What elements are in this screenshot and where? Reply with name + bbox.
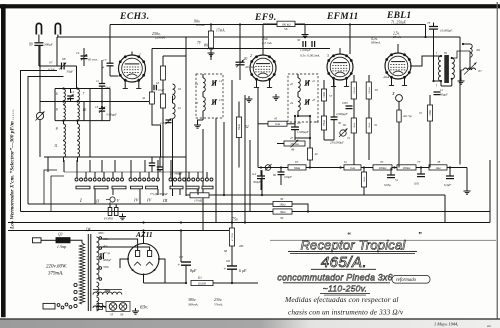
svg-text:17mA.: 17mA. (216, 29, 225, 33)
svg-text:14: 14 (195, 82, 199, 86)
svg-text:EF9.: EF9. (254, 13, 277, 23)
svg-text:1: 1 (139, 53, 141, 57)
switch Alt (397, 110, 401, 122)
svg-text:25mA.: 25mA. (393, 35, 401, 39)
capacitor C29 group (149, 162, 155, 164)
resistor R70 200k (373, 165, 392, 170)
winding 39v (93, 292, 122, 294)
resistor R59 500k (368, 75, 370, 82)
title reformado box (392, 276, 430, 284)
svg-text:2: 2 (250, 54, 252, 58)
svg-text:I: I (79, 199, 82, 204)
tube U1 ECH3 (119, 55, 146, 82)
switch S1 contacts row B (129, 178, 132, 181)
svg-text:45: 45 (274, 117, 278, 121)
svg-text:13: 13 (195, 101, 199, 105)
wire U1 grid (110, 75, 119, 77)
svg-text:10: 10 (178, 87, 182, 91)
resistor R39 1M (21, 211, 274, 213)
svg-text:500kΩ: 500kΩ (368, 87, 371, 94)
aerial input jack J1 (36, 112, 43, 119)
svg-text:Los Wermorrador X’cm. “Selectr: Los Wermorrador X’cm. “Selectror”—300 pF… (10, 109, 16, 230)
pickup jack G4 (265, 165, 271, 171)
svg-text:57mA.: 57mA. (214, 303, 223, 307)
svg-text:3: 3 (327, 54, 329, 58)
svg-text:75kΩ: 75kΩ (323, 120, 326, 126)
svg-text:51: 51 (395, 178, 399, 182)
coil L12 osc (173, 103, 176, 119)
svg-text:III: III (162, 198, 168, 203)
ground R56 (304, 24, 306, 32)
resistor R45 1k (258, 123, 268, 125)
svg-text:Medidas efectuadas con respect: Medidas efectuadas con respector al (284, 295, 399, 304)
capacitor CG8 6uF (231, 246, 233, 266)
wire right verticals (489, 160, 491, 223)
svg-text:380ν.: 380ν. (188, 298, 196, 302)
wire fuse out (70, 240, 82, 243)
svg-text:60: 60 (343, 123, 347, 127)
svg-text:379mA.: 379mA. (48, 272, 63, 277)
svg-text:36: 36 (338, 121, 342, 125)
coil L11 (64, 141, 66, 157)
svg-text:+: + (224, 268, 227, 273)
svg-text:Receptor Tropical: Receptor Tropical (300, 238, 406, 253)
capacitor C12 padder (67, 95, 74, 97)
resistor R60 50k (351, 118, 356, 133)
svg-text:67: 67 (295, 160, 299, 164)
wire U2 legs (257, 88, 259, 168)
wire AVC bus 1 (210, 194, 445, 196)
svg-text:300μF: 300μF (253, 180, 261, 184)
svg-text:7: 7 (83, 92, 85, 96)
wire coil links (63, 103, 65, 106)
wire tuning h3 (55, 120, 110, 122)
transformer T1 primary (79, 243, 84, 304)
transformer T1 secondary LT (97, 282, 99, 296)
transformer T1 core (87, 234, 89, 311)
svg-text:EFM11: EFM11 (326, 12, 359, 22)
svg-text:44: 44 (290, 101, 294, 105)
svg-text:3-30μμF: 3-30μμF (106, 113, 117, 117)
resistor R31 10k (190, 193, 209, 198)
ground U2 k (248, 96, 250, 99)
wire B+ line (213, 282, 258, 284)
svg-text:G8: G8 (226, 259, 230, 263)
wire AZ11 cathode out (143, 275, 145, 284)
resistor R-50k v (363, 168, 365, 173)
svg-text:500kΩ: 500kΩ (353, 87, 356, 94)
coil L7 (78, 89, 80, 104)
svg-text:12: 12 (71, 90, 75, 94)
wire tuning h1 (55, 88, 110, 90)
svg-text:11: 11 (54, 144, 58, 148)
IF transformer IFT2 (dashed) (288, 74, 318, 122)
resistor R77 200k (397, 165, 416, 170)
capacitor C-6.3 (449, 168, 451, 177)
svg-text:1MΩ: 1MΩ (323, 92, 326, 98)
wire spk top (463, 43, 470, 45)
svg-text:98: 98 (62, 57, 66, 61)
wire osc verticals (172, 96, 174, 103)
capacitor C99 300pF (38, 35, 40, 43)
capacitor C36 2000pF (333, 80, 335, 117)
svg-text:49: 49 (315, 152, 319, 156)
svg-text:330ν: 330ν (103, 265, 110, 269)
svg-text:690mA.: 690mA. (371, 41, 381, 45)
svg-text:Q3: Q3 (58, 233, 63, 237)
capacitor IFT1b (212, 99, 214, 105)
capacitor IFT2b (305, 99, 307, 105)
border right line (497, 2, 498, 322)
svg-text:Alt. 5μ: Alt. 5μ (402, 114, 412, 118)
wire AZ11 top (143, 231, 145, 244)
svg-text:50kΩ: 50kΩ (353, 123, 356, 129)
ground lamps (135, 308, 137, 311)
title underline 2 (311, 268, 376, 270)
resistor R72 1M (429, 95, 431, 105)
svg-text:9: 9 (56, 108, 58, 112)
resistor R62 1k (344, 165, 361, 170)
svg-text:32ν: 32ν (105, 289, 111, 293)
coil L8b (78, 124, 80, 140)
wire left feed 2 (28, 77, 64, 205)
svg-text:47: 47 (290, 136, 294, 140)
tube U2 EF9 (250, 55, 276, 81)
coil L6 (64, 89, 66, 104)
switch S1 contacts row C (169, 178, 172, 181)
svg-text:67mA.: 67mA. (196, 23, 205, 27)
svg-text:20: 20 (244, 57, 248, 61)
svg-text:77: 77 (417, 160, 421, 164)
svg-text:chasis con un instrumento de 3: chasis con un instrumento de 333 Ω/ν (288, 308, 404, 317)
capacitor C18 (153, 85, 155, 90)
wire det links (295, 137, 310, 139)
svg-text:56: 56 (284, 27, 288, 31)
wire to coils (76, 66, 78, 89)
wire EBL1 top (397, 44, 399, 53)
svg-text:19: 19 (76, 51, 80, 55)
svg-text:1kΩ: 1kΩ (350, 167, 355, 170)
wire fono (109, 203, 111, 208)
svg-text:8: 8 (56, 127, 58, 131)
svg-text:4mA: 4mA (383, 75, 390, 79)
capacitor C98 trimmer (39, 65, 62, 67)
wire tuning verticals (89, 89, 91, 158)
capacitor C11 (99, 83, 105, 85)
coil IFT2a (298, 78, 300, 92)
ground speaker (460, 78, 462, 81)
wire 90V bus (110, 24, 426, 26)
output transformer T2 (439, 56, 441, 81)
wire long bus 230 (8, 230, 232, 232)
resistor R53 (231, 223, 233, 229)
speaker magnet 67 (464, 68, 476, 70)
svg-text:48: 48 (291, 148, 295, 152)
border left bar (1, 4, 6, 317)
capacitor C12b (434, 91, 441, 93)
svg-text:30: 30 (297, 38, 301, 42)
coil L10 osc (173, 84, 176, 100)
pilot lamp 56 (119, 303, 127, 311)
switch down wires (94, 189, 96, 195)
resistor R16 (160, 94, 165, 108)
coil L9 (64, 105, 66, 120)
svg-text:39: 39 (280, 216, 284, 220)
resistor R25 (149, 92, 154, 104)
svg-text:II: II (95, 199, 100, 204)
svg-text:1 Amp.: 1 Amp. (57, 245, 67, 249)
wire lamps (98, 306, 106, 308)
svg-text:50μμF: 50μμF (440, 93, 448, 97)
winding heater (93, 306, 105, 308)
fuse Q3 1Amp (41, 239, 56, 241)
wire EFM11 top (339, 48, 341, 54)
coil IFT2b (298, 97, 300, 111)
resistor R57 1M (323, 80, 325, 89)
capacitor C66 100uF (280, 168, 282, 173)
antenna socket A2 (55, 23, 60, 34)
svg-text:200kΩ: 200kΩ (379, 167, 387, 170)
svg-text:1MΩ: 1MΩ (429, 110, 432, 116)
svg-text:50kΩ: 50kΩ (363, 177, 366, 183)
capacitor C51 (390, 168, 392, 176)
svg-text:8μF: 8μF (190, 268, 197, 273)
svg-text:41: 41 (312, 79, 316, 83)
svg-text:1000μF: 1000μF (103, 259, 112, 262)
switch frame (44, 170, 57, 204)
resistor R61 50k (366, 118, 371, 133)
svg-text:+: + (178, 264, 181, 269)
svg-text:72: 72 (419, 111, 423, 115)
svg-text:14: 14 (219, 79, 223, 83)
svg-text:59: 59 (375, 88, 379, 92)
svg-text:50μF: 50μF (67, 70, 74, 74)
mains plug (33, 238, 42, 243)
svg-text:12: 12 (178, 106, 182, 110)
transformer taps left (74, 283, 77, 286)
svg-text:56: 56 (120, 313, 124, 317)
svg-text:61: 61 (344, 160, 348, 164)
ground FONO (122, 214, 124, 217)
svg-text:12: 12 (96, 79, 100, 83)
choke 20000 (191, 280, 213, 285)
svg-text:28ν: 28ν (239, 244, 244, 248)
resistor R-500k a (353, 75, 355, 82)
phono pickup X (396, 95, 403, 102)
coil IFT1a (203, 78, 205, 92)
tube U3 EFM11 (327, 54, 353, 80)
transformer T1 secondary HT (97, 237, 100, 257)
switch risers (76, 172, 78, 178)
wire spk magnet (469, 57, 471, 70)
antenna socket A1 (36, 23, 41, 34)
svg-text:30kΩ: 30kΩ (294, 167, 300, 170)
svg-text:66: 66 (477, 48, 481, 52)
resistor R58 75k (323, 101, 325, 116)
resistor R78 1k (429, 165, 447, 170)
wire R56 leads (263, 23, 277, 25)
ground row167 (466, 183, 468, 188)
capacitor C13 trimmer 3-30pF (99, 108, 105, 110)
wire row167 left (258, 167, 288, 169)
svg-text:1μ: 1μ (101, 65, 105, 69)
svg-text:66: 66 (273, 173, 277, 177)
svg-text:67: 67 (479, 69, 483, 73)
capacitor IFT1a (212, 80, 214, 86)
svg-text:G5: G5 (179, 255, 183, 259)
svg-text:75: 75 (427, 21, 431, 25)
resistor R21 7V dropper (210, 25, 212, 32)
svg-text:229mA.: 229mA. (155, 36, 166, 40)
svg-text:10 kΩ.: 10 kΩ. (194, 199, 203, 203)
capacitor IFT2a (305, 80, 307, 86)
wire row167 main (306, 167, 344, 169)
svg-text:13: 13 (95, 105, 99, 109)
svg-text:X: X (391, 91, 395, 96)
lamp housing (106, 302, 130, 312)
svg-text:63ν.: 63ν. (140, 306, 148, 311)
svg-text:Q4: Q4 (86, 228, 91, 232)
resistor R36 2M (28, 203, 273, 205)
resistor R49 (309, 138, 311, 148)
svg-text:100μF: 100μF (284, 175, 292, 179)
svg-text:230ν.: 230ν. (214, 298, 222, 302)
svg-text:Ω1: Ω1 (198, 276, 202, 280)
title underline 3 (283, 282, 390, 284)
capacitor C-0.01 (420, 168, 422, 175)
ground U2 g (275, 94, 277, 97)
svg-text:1MΩ: 1MΩ (280, 211, 286, 214)
svg-text:55: 55 (110, 313, 114, 317)
svg-text:57: 57 (329, 94, 333, 98)
capacitor C17 (109, 60, 111, 63)
svg-text:50kΩ: 50kΩ (368, 123, 371, 129)
capacitor C19 60cms (81, 55, 88, 57)
tube U4 EBL1 (385, 53, 411, 79)
wire long bus 222 (8, 222, 490, 224)
svg-text:concommutador Pineda 3x6: concommutador Pineda 3x6 (277, 273, 392, 283)
capacitor C-1000 (346, 105, 353, 107)
svg-text:200kΩ: 200kΩ (403, 167, 411, 170)
capacitor C30 (302, 41, 304, 47)
phono sockets FONO (108, 208, 112, 216)
resistor R15 (162, 56, 164, 66)
wire AZ11 sides (120, 259, 128, 268)
svg-text:43: 43 (312, 98, 316, 102)
svg-text:G4: G4 (252, 172, 256, 176)
svg-text:ECH3.: ECH3. (119, 12, 150, 22)
svg-text:100 kΩ: 100 kΩ (282, 22, 292, 26)
svg-text:15kΩ: 15kΩ (238, 124, 241, 130)
svg-text:61: 61 (375, 123, 379, 127)
svg-text:69: 69 (444, 51, 448, 55)
svg-text:reformado: reformado (396, 278, 417, 283)
capacitor C20 variable 40cms (239, 59, 241, 62)
resistor R52 15k (238, 102, 240, 118)
svg-text:300~: 300~ (98, 231, 105, 235)
svg-text:75v.: 75v. (232, 217, 238, 222)
border top bar (0, 4, 500, 8)
transformer taps right (99, 237, 102, 240)
svg-text:70: 70 (380, 160, 384, 164)
voltage selector (43, 303, 55, 309)
capacitor secondary (100, 253, 102, 259)
potentiometer R47 200k (277, 143, 284, 145)
svg-text:1000: 1000 (342, 102, 348, 105)
wire det verticals (398, 122, 400, 168)
wire EF9 screen (262, 24, 264, 55)
svg-text:12: 12 (440, 88, 444, 92)
potentiometer P volume (340, 130, 346, 136)
svg-text:42: 42 (290, 82, 294, 86)
wire T2 leads (410, 56, 441, 66)
coil L10 (78, 105, 80, 120)
wire 80V line (152, 48, 330, 50)
resistor R67 30k (288, 165, 306, 170)
svg-text:~110-250v.: ~110-250v. (323, 284, 368, 294)
wire 250V bus (57, 36, 460, 38)
wire U1 leg chain (151, 86, 153, 92)
svg-text:2-20: 2-20 (160, 121, 166, 125)
svg-text:6: 6 (56, 92, 58, 96)
svg-text:17: 17 (103, 58, 107, 62)
pilot lamp 55 (109, 303, 117, 311)
capacitor C75 10000pF (433, 23, 435, 27)
wire feeders (109, 25, 111, 61)
svg-text:2MΩ: 2MΩ (280, 203, 286, 206)
capacitor C-G4 300uF (260, 170, 262, 176)
wire left feed 1 (21, 71, 58, 212)
switch S1 contacts row A (75, 178, 78, 181)
wire tuning h4 (44, 156, 186, 158)
svg-text:10μF: 10μF (158, 88, 165, 92)
ground 80v line (210, 50, 212, 53)
capacitor C2-20 trimmer (166, 119, 172, 121)
IF transformer IFT1 (dashed) (196, 74, 223, 118)
svg-text:220ν.60W.: 220ν.60W. (46, 265, 67, 270)
wire antenna 2 down (57, 35, 59, 38)
tube U5 AZ11 (128, 244, 159, 275)
svg-text:78: 78 (437, 160, 441, 164)
svg-text:31: 31 (347, 136, 351, 140)
wire EFM cluster (353, 99, 355, 118)
capacitor CG5 8uF (180, 231, 182, 263)
wire tuning h2 (40, 101, 152, 103)
ground IFT1 (197, 122, 199, 125)
svg-text:52: 52 (245, 125, 249, 129)
svg-text:60 cms.: 60 cms. (88, 58, 98, 62)
resistor R56 100k (277, 21, 295, 26)
svg-text:6 μF.: 6 μF. (239, 268, 247, 273)
svg-text:300μF: 300μF (44, 43, 54, 47)
svg-text:465/A.: 465/A. (321, 254, 367, 271)
svg-text:13: 13 (219, 98, 223, 102)
svg-text:383mA.: 383mA. (188, 303, 199, 307)
svg-text:em: em (487, 324, 492, 328)
wire HT leads (99, 239, 138, 251)
svg-text:68: 68 (224, 249, 228, 253)
title underline 1 (288, 251, 417, 253)
bus dots (142, 221, 144, 223)
svg-text:99: 99 (29, 43, 33, 47)
switch risers long (63, 160, 65, 172)
speaker coil 66 (470, 44, 472, 57)
svg-text:1kΩ: 1kΩ (436, 167, 441, 170)
svg-text:”: ” (418, 230, 422, 239)
switch S1 wafer bars (76, 186, 90, 189)
svg-text:97: 97 (49, 61, 53, 65)
svg-text:58: 58 (315, 120, 319, 124)
